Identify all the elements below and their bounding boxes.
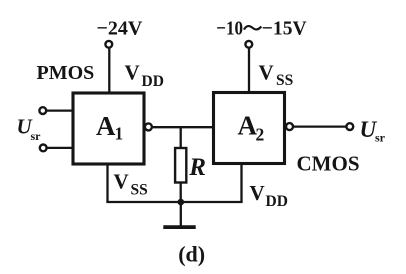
wire: tap down to resistor R bbox=[180, 127, 182, 148]
wire: input terminal 2 to A1 bbox=[47, 147, 73, 149]
svg-text:DD: DD bbox=[142, 73, 164, 90]
wire: -10~-15V to A2 top (VSS pin) bbox=[248, 48, 250, 92]
svg-text:sr: sr bbox=[31, 129, 42, 143]
input terminal 2 bbox=[40, 145, 47, 152]
supply terminal -24V bbox=[105, 41, 112, 48]
svg-text:sr: sr bbox=[375, 130, 386, 144]
svg-text:−15V: −15V bbox=[262, 17, 307, 39]
svg-text:V: V bbox=[250, 181, 265, 205]
svg-text:SS: SS bbox=[276, 72, 293, 89]
output terminal bbox=[346, 123, 353, 130]
svg-text:A: A bbox=[96, 111, 116, 141]
svg-text:V: V bbox=[259, 60, 274, 84]
svg-text:−24V: −24V bbox=[97, 18, 143, 40]
wire: A2 output to output terminal bbox=[293, 125, 346, 127]
wire: A1 bottom (VSS pin) down bbox=[106, 164, 108, 202]
svg-text:V: V bbox=[114, 169, 129, 193]
ground bbox=[163, 225, 195, 229]
svg-text:CMOS: CMOS bbox=[297, 152, 360, 176]
svg-text:−10: −10 bbox=[216, 17, 243, 39]
svg-text:(d): (d) bbox=[178, 241, 205, 266]
svg-text:1: 1 bbox=[115, 124, 124, 144]
wire: A2 bottom (VDD pin) down bbox=[240, 164, 242, 203]
supply terminal -10~-15V bbox=[245, 41, 252, 48]
amplifier A2 bbox=[214, 93, 285, 164]
resistor R bbox=[175, 148, 186, 183]
wire: resistor R to ground rail junction bbox=[180, 183, 182, 203]
wire: -24V to A1 top (VDD pin) bbox=[108, 48, 110, 93]
wire: bottom rail bbox=[106, 201, 242, 203]
A1 output bubble bbox=[145, 123, 152, 130]
A2 output bubble bbox=[286, 123, 293, 130]
svg-text:A: A bbox=[238, 111, 258, 141]
svg-text:2: 2 bbox=[256, 125, 265, 145]
junction dot bbox=[178, 199, 185, 206]
svg-text:V: V bbox=[125, 61, 140, 85]
wire: A1 output to A2 input bbox=[153, 126, 214, 128]
wire: junction to ground bbox=[180, 202, 182, 226]
input terminal 1 bbox=[39, 107, 46, 114]
wire: input terminal 1 to A1 bbox=[47, 109, 73, 111]
svg-text:PMOS: PMOS bbox=[37, 62, 95, 84]
svg-text:SS: SS bbox=[131, 181, 148, 198]
svg-text:R: R bbox=[188, 154, 206, 181]
svg-text:DD: DD bbox=[266, 193, 288, 210]
amplifier A1 bbox=[73, 93, 144, 164]
